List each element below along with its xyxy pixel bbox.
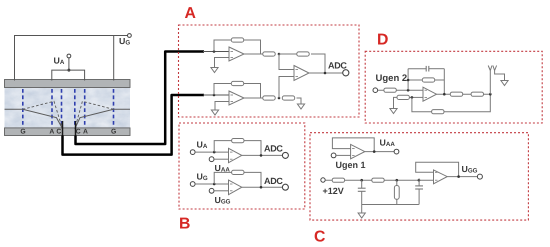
svg-text:G: G	[20, 128, 25, 135]
wire D feedback resistor rail	[408, 79, 444, 81]
node top branch	[278, 53, 281, 56]
terminal +12V	[321, 178, 325, 182]
wire Ugen1 input	[336, 154, 351, 156]
capacitor C1 shunt	[358, 180, 366, 204]
wire U1 plus to ground	[215, 58, 230, 68]
terminal Ugen2 input	[373, 88, 378, 93]
ground D input	[390, 109, 397, 114]
node U2 feedback junction	[213, 94, 216, 97]
resistor B1 feedback	[232, 139, 244, 143]
node UA junction	[67, 69, 70, 72]
wire U1 feedback	[214, 40, 261, 54]
acoustic path solid right	[75, 109, 130, 129]
wire thick sensor-to-A input1 (right C electrode)	[75, 121, 77, 137]
wire node to diff plus	[279, 77, 294, 99]
acoustic path dashed right	[75, 101, 114, 128]
node B2 output junction	[260, 186, 263, 189]
wire node to diff minus	[279, 54, 294, 70]
wire UGG to op-amp	[214, 190, 229, 192]
node B2 fb junction	[213, 183, 216, 186]
electrode A left (dashed)	[51, 89, 53, 127]
wire D feedback left vertical	[407, 69, 409, 91]
wire thin continuation input1	[203, 51, 229, 53]
wire UA to op-amp	[195, 151, 228, 153]
box B dashed border	[179, 123, 305, 209]
terminal UAA box B	[209, 157, 214, 162]
sensor bottom metal strip	[5, 128, 131, 136]
box C dashed border	[310, 133, 528, 220]
wire B2 feedback	[214, 172, 261, 187]
terminal ADC B1	[282, 152, 288, 158]
resistor U1 feedback	[231, 38, 243, 42]
op-amp D1	[423, 87, 437, 101]
node U3 fb junction	[324, 72, 327, 75]
svg-text:Ugen 2: Ugen 2	[376, 73, 408, 84]
wire B1 output	[242, 154, 283, 156]
ground D probe	[501, 81, 508, 86]
terminal Ugen1 input	[331, 153, 336, 158]
svg-text:ADC: ADC	[264, 176, 283, 186]
wire node to fb resistor	[279, 53, 297, 55]
svg-text:C: C	[76, 128, 81, 135]
svg-text:ADC: ADC	[264, 144, 283, 154]
wire UG to op-amp	[195, 183, 228, 185]
node D plus junction	[411, 96, 414, 99]
resistor diff feedback	[297, 52, 309, 56]
op-amp B1	[229, 148, 242, 162]
wire UA horizontal	[52, 70, 85, 80]
electrode C left (dashed)	[61, 89, 63, 127]
electrode labels G A C C A G	[20, 128, 116, 135]
node B1 output junction	[260, 154, 263, 157]
ground diff branch	[297, 104, 304, 109]
svg-text:B: B	[179, 216, 190, 233]
resistor D output 1	[450, 92, 462, 96]
resistor B2 feedback	[232, 170, 244, 174]
svg-text:C: C	[314, 229, 325, 246]
wire C1 output	[365, 151, 394, 153]
probe connector prongs	[488, 66, 504, 81]
wire UG net	[15, 36, 128, 81]
wire C2 feedback loop	[416, 162, 459, 176]
terminal UA box B	[190, 150, 195, 155]
box A dashed border	[179, 25, 360, 117]
wire C2 output	[447, 176, 477, 178]
wire +12V rail	[325, 179, 433, 181]
wire U2 plus to ground	[215, 102, 229, 111]
resistor C shunt vertical	[394, 180, 399, 204]
wire D plus resistor to ground	[394, 97, 398, 108]
terminal UAA box C	[394, 149, 399, 154]
terminal UA	[67, 54, 71, 58]
terminal ADC B2	[282, 184, 288, 190]
capacitor C2 shunt	[415, 178, 423, 204]
node C1 output junction	[373, 150, 376, 153]
svg-text:G: G	[111, 128, 116, 135]
node D input junction	[407, 89, 410, 92]
wire U2 feedback	[214, 84, 261, 99]
node C2 output junction	[457, 175, 460, 178]
wire UG right vertical	[113, 36, 115, 81]
wire C ground stub	[361, 205, 363, 214]
wire U1 output	[244, 53, 263, 55]
svg-text:D: D	[377, 31, 388, 48]
svg-text:Ugen 1: Ugen 1	[336, 160, 366, 170]
capacitor D feedback	[408, 66, 444, 72]
svg-text:A: A	[49, 128, 54, 135]
acoustic path solid left	[5, 109, 63, 129]
resistor R top branch	[263, 52, 275, 56]
wire B1 feedback	[214, 141, 261, 156]
wire UAA to op-amp	[214, 158, 229, 160]
ground under U2	[211, 110, 218, 115]
svg-text:A: A	[185, 5, 196, 22]
resistor R bottom branch	[263, 96, 275, 100]
resistor D output 2	[471, 92, 483, 96]
sensor top metal strip	[5, 80, 131, 88]
svg-text:ADC: ADC	[328, 61, 347, 71]
node D output junction 1	[443, 93, 446, 96]
node D fb rail junction	[407, 79, 410, 82]
node bottom branch	[278, 97, 281, 100]
electrode G right (dashed)	[113, 89, 115, 127]
wire D bottom feedback	[412, 94, 490, 112]
wire thin continuation input2	[203, 94, 229, 96]
svg-text:+12V: +12V	[323, 186, 344, 196]
resistor C rail 2	[372, 178, 384, 182]
wire D output	[437, 93, 491, 95]
electrode C right (dashed)	[74, 89, 76, 127]
op-amp C2 UGG	[434, 170, 448, 184]
terminal ADC box A	[343, 70, 349, 76]
resistor to ground bottom	[282, 96, 294, 100]
wire UA net	[68, 58, 70, 70]
wire Ugen2 input	[378, 89, 423, 91]
node U1 feedback junction	[213, 50, 216, 53]
wire D feedback right vertical	[443, 69, 445, 95]
svg-text:A: A	[83, 128, 88, 135]
wire D plus resistor to opamp	[409, 96, 423, 98]
wire B2 output	[242, 186, 283, 188]
op-amp U1	[229, 47, 244, 61]
terminal UG box B	[190, 182, 195, 187]
resistor U2 feedback	[231, 81, 243, 85]
electrode G left (dashed)	[22, 89, 24, 127]
terminal UG	[127, 34, 131, 38]
wire thick sensor-to-A input2 (left C electrode)	[62, 121, 64, 137]
op-amp C1	[351, 144, 365, 158]
ground under U1	[211, 68, 218, 73]
resistor D feedback	[422, 78, 434, 82]
node D output junction 2	[489, 93, 492, 96]
resistor C rail 1	[332, 178, 344, 182]
wire fb down to output	[311, 54, 325, 73]
wire to ground bottom	[297, 98, 302, 104]
wire C1 feedback loop	[332, 138, 374, 152]
op-amp B2	[229, 180, 242, 195]
resistor D plus input	[397, 95, 409, 99]
svg-text:C: C	[56, 128, 61, 135]
box D dashed border	[365, 51, 542, 123]
node C rail junction 2	[396, 179, 399, 182]
terminal UGG box B	[209, 188, 214, 193]
electrode A right (dashed)	[84, 89, 86, 127]
node C rail junction 3	[418, 179, 421, 182]
resistor D bottom feedback	[432, 110, 444, 114]
wire U3 output to ADC	[309, 72, 343, 74]
ground box C	[358, 213, 365, 218]
wire U2 output	[244, 97, 263, 99]
resistor D input	[384, 88, 396, 92]
acoustic path dashed left	[23, 101, 63, 128]
op-amp U3 difference	[294, 66, 309, 81]
op-amp U2	[229, 91, 244, 105]
node C rail junction 1	[360, 179, 363, 182]
wire D to probe	[489, 71, 491, 95]
node B1 fb junction	[213, 151, 216, 154]
terminal UGG box C	[477, 174, 482, 179]
sensor substrate (blue speckled layer)	[5, 88, 131, 128]
wire C ground rail	[362, 204, 419, 206]
